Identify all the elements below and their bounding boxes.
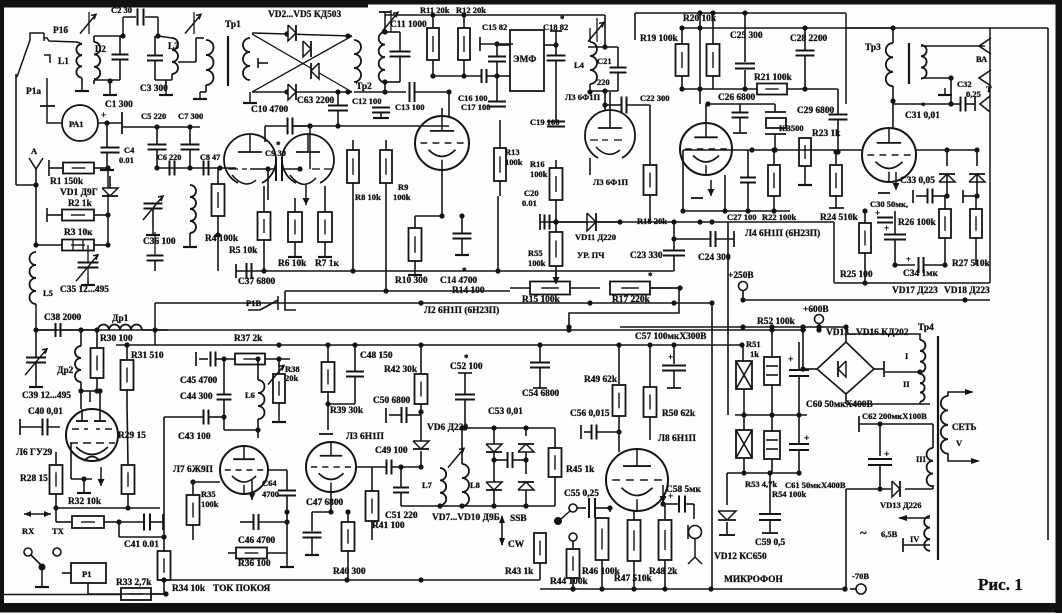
svg-text:L7: L7 xyxy=(422,480,433,490)
resistor R32 xyxy=(122,465,135,494)
wire C3-L3 bottom xyxy=(155,79,172,81)
arrow updown SSB xyxy=(501,516,503,545)
wire y415 xyxy=(735,414,807,416)
wire BA bottom xyxy=(921,77,951,79)
diode VD18 xyxy=(969,174,985,182)
wire III top xyxy=(870,444,933,448)
svg-text:R21 100k: R21 100k xyxy=(754,73,793,83)
ground C39 xyxy=(35,380,37,387)
svg-text:C31 0,01: C31 0,01 xyxy=(905,111,940,121)
svg-text:C46 4700: C46 4700 xyxy=(238,536,276,546)
diode VD10 xyxy=(518,482,534,490)
capacitor C56 xyxy=(591,425,593,440)
bus y271 xyxy=(236,270,674,272)
svg-text:Р1В: Р1В xyxy=(246,298,261,308)
switch RX contact xyxy=(24,548,32,556)
capacitor C4 xyxy=(101,147,120,149)
wire TX down xyxy=(56,556,58,560)
capacitor C33b bar xyxy=(962,190,964,203)
rail y13 xyxy=(635,12,846,14)
wire tube2 top xyxy=(441,108,443,116)
svg-text:Др2: Др2 xyxy=(57,366,74,376)
svg-text:R36 100: R36 100 xyxy=(238,559,271,569)
diode VD8 xyxy=(518,444,534,452)
diode VD5 xyxy=(288,84,296,100)
svg-text:VD13 Д226: VD13 Д226 xyxy=(880,500,922,510)
svg-text:R53 4,7k: R53 4,7k xyxy=(745,479,777,489)
svg-text:R6 10k: R6 10k xyxy=(278,259,307,269)
svg-text:R54 100k: R54 100k xyxy=(772,489,807,499)
ground C35 xyxy=(87,268,89,278)
svg-text:R3 10к: R3 10к xyxy=(64,228,93,238)
resistor R13 xyxy=(494,148,506,181)
svg-text:C15 82: C15 82 xyxy=(482,22,507,32)
resistor R27 xyxy=(970,209,982,238)
diode VD3 xyxy=(303,41,311,57)
svg-text:C22 300: C22 300 xyxy=(640,93,670,103)
svg-text:C40 0,01: C40 0,01 xyxy=(28,407,63,417)
relay P1b contact arm xyxy=(17,33,44,77)
tube left innards xyxy=(238,151,262,153)
svg-text:ТХ: ТХ xyxy=(52,526,65,536)
resistor R3 xyxy=(62,240,94,251)
ring bottom wire xyxy=(252,91,352,93)
arrow IV top xyxy=(899,517,930,519)
svg-text:Тр3: Тр3 xyxy=(865,43,881,53)
capacitor C39 variable xyxy=(26,357,46,359)
terminal bar right of PA1 xyxy=(121,112,123,134)
capacitor C9 xyxy=(275,157,277,181)
tube L3a innards xyxy=(598,127,622,129)
svg-text:R5 10k: R5 10k xyxy=(229,246,258,256)
resistor R28 xyxy=(50,465,63,494)
svg-text:C2 30: C2 30 xyxy=(111,5,132,15)
wire grid row y150 xyxy=(683,149,862,151)
svg-text:C58 5мк: C58 5мк xyxy=(666,485,702,495)
svg-text:-70В: -70В xyxy=(852,571,869,581)
capacitor C41 xyxy=(143,514,145,531)
box bottom xyxy=(833,222,835,283)
coil L8 xyxy=(462,464,469,478)
wire C44-L6 bottom xyxy=(224,429,258,431)
ring diag 2 xyxy=(252,36,352,92)
svg-text:R25 100: R25 100 xyxy=(840,270,873,280)
svg-text:C13 100: C13 100 xyxy=(395,102,425,112)
svg-text:C1 300: C1 300 xyxy=(105,100,133,110)
capacitor C2 xyxy=(137,9,139,26)
svg-text:C50 6800: C50 6800 xyxy=(373,396,411,406)
terminal -70V xyxy=(842,586,847,591)
svg-text:0.01: 0.01 xyxy=(522,198,537,208)
capacitor C25 xyxy=(735,63,755,65)
bar in ring xyxy=(257,58,259,68)
resistor R1 xyxy=(63,163,94,174)
wire right column xyxy=(107,168,109,245)
svg-text:R49 62k: R49 62k xyxy=(584,375,618,385)
relay P1a contact xyxy=(46,78,48,106)
wire x421 col xyxy=(420,467,422,506)
arrow set bottom xyxy=(948,453,978,461)
svg-text:220: 220 xyxy=(597,77,610,87)
resistor R47 xyxy=(628,520,641,561)
svg-text:*: * xyxy=(560,14,565,24)
ground C4 xyxy=(106,163,108,170)
speaker BA horn bottom xyxy=(979,70,991,86)
capacitor C1 xyxy=(112,54,129,56)
wire L4 bottom xyxy=(683,210,790,212)
wire C2 to L3 xyxy=(145,16,158,18)
capacitor C49 xyxy=(386,460,388,475)
svg-text:0.01: 0.01 xyxy=(119,155,134,165)
svg-text:R23 1k: R23 1k xyxy=(812,129,841,139)
wire L5 anode xyxy=(892,101,894,128)
capacitor C18 xyxy=(547,55,566,57)
wire R13 drop xyxy=(497,196,499,271)
resistor R55 xyxy=(550,232,563,266)
capacitor C34sh xyxy=(884,234,906,236)
svg-text:R40 300: R40 300 xyxy=(333,567,366,577)
svg-text:Л7 6Ж9П: Л7 6Ж9П xyxy=(173,465,214,475)
svg-text:C24 300: C24 300 xyxy=(698,253,731,263)
svg-text:100k: 100k xyxy=(528,258,546,268)
svg-text:R52 100k: R52 100k xyxy=(757,317,796,327)
resistor R9 xyxy=(380,150,392,183)
capacitor C55 xyxy=(588,498,590,518)
capacitor C5 xyxy=(148,144,167,146)
anode wires GU29 xyxy=(80,391,82,409)
wire BA top xyxy=(921,45,985,47)
resistor R33 xyxy=(121,588,151,600)
wire TX-P1 xyxy=(62,572,71,574)
antenna symbol xyxy=(29,158,43,169)
wire Tp2 top xyxy=(384,12,386,30)
svg-text:R50 62k: R50 62k xyxy=(662,409,696,419)
svg-text:R44 100k: R44 100k xyxy=(550,577,589,587)
wire Tp4 I top xyxy=(848,334,920,340)
trimmer Tp2 xyxy=(382,12,398,31)
svg-text:Тр2: Тр2 xyxy=(356,82,372,92)
arrow L5 xyxy=(895,172,897,190)
svg-text:Л2 6Н1П (6Н23П): Л2 6Н1П (6Н23П) xyxy=(424,305,499,316)
wire Dr2-R30 join xyxy=(81,390,97,392)
capacitor C50 xyxy=(401,407,403,423)
bus y327 xyxy=(620,326,846,328)
wire P1 bottom xyxy=(87,583,89,594)
bridge diode xyxy=(838,361,846,377)
tube L4 6N1P xyxy=(680,123,732,175)
wire C41 down xyxy=(118,522,120,537)
wire Tp4 II xyxy=(883,369,885,372)
resistor R22 xyxy=(768,165,780,196)
wire R39 to tube xyxy=(327,404,329,430)
capacitor C13 xyxy=(409,82,411,102)
resistor R19 xyxy=(676,44,689,76)
coil L4b xyxy=(590,42,597,56)
terminal +600V xyxy=(815,315,824,324)
svg-text:+250В: +250В xyxy=(728,271,754,281)
arrow L8 cath xyxy=(662,485,664,503)
svg-text:+: + xyxy=(668,352,673,362)
svg-text:РА1: РА1 xyxy=(69,119,84,129)
resistor R23 xyxy=(799,138,811,166)
ground Tp1 left xyxy=(199,92,201,99)
coil Tp4 IV xyxy=(924,516,930,528)
svg-text:Р1б: Р1б xyxy=(53,25,68,36)
svg-text:R13: R13 xyxy=(505,147,520,157)
wire R8 drop xyxy=(352,196,354,271)
capacitor C6 xyxy=(169,161,171,176)
svg-text:*: * xyxy=(276,140,281,150)
svg-text:C23 330: C23 330 xyxy=(630,251,663,261)
capacitor C63 xyxy=(328,105,348,107)
capacitor C64 xyxy=(278,490,296,492)
bus y300 right xyxy=(743,299,990,301)
capacitor C26 xyxy=(732,112,749,114)
capacitor C57 xyxy=(673,345,675,364)
wire cath col xyxy=(267,169,269,200)
bridge diamond xyxy=(817,342,874,394)
wire TX stub xyxy=(55,508,57,522)
svg-text:Т: Т xyxy=(986,84,992,94)
wire L2 bottom xyxy=(94,79,120,81)
wire L3 bottom drop xyxy=(330,492,332,512)
svg-text:C3 300: C3 300 xyxy=(140,84,168,94)
capacitor C35 variable xyxy=(78,262,99,264)
wire L3 to Tp1 xyxy=(178,61,196,63)
svg-text:C5 220: C5 220 xyxy=(141,111,166,121)
wire R11R12 bottom xyxy=(433,75,464,77)
svg-text:L6: L6 xyxy=(245,390,255,400)
capacitor C15 xyxy=(488,56,506,58)
capacitor C62 xyxy=(879,424,881,456)
wire L7 left lead xyxy=(193,481,220,483)
svg-text:*: * xyxy=(921,101,926,111)
resistor R46 xyxy=(596,518,609,560)
svg-text:V: V xyxy=(956,438,963,448)
ground under L1 xyxy=(81,84,83,91)
svg-text:SSB: SSB xyxy=(510,514,527,524)
capacitor C61 xyxy=(798,415,800,443)
svg-text:+: + xyxy=(884,450,889,460)
svg-text:R26 100k: R26 100k xyxy=(898,218,937,228)
capacitor C53 xyxy=(507,452,509,468)
svg-text:~: ~ xyxy=(860,525,867,540)
resistor R51 ballast xyxy=(736,361,752,389)
wire bridge bottom xyxy=(845,394,847,404)
block EMF xyxy=(510,30,544,91)
wire y265 xyxy=(865,264,976,266)
tube L3 6N1P xyxy=(306,442,356,492)
svg-text:C47 6800: C47 6800 xyxy=(306,498,344,508)
svg-text:100k: 100k xyxy=(393,192,411,202)
svg-text:II: II xyxy=(903,379,910,389)
capacitor C24 xyxy=(710,231,712,247)
coil L3 xyxy=(172,38,178,50)
svg-text:VD18 Д223: VD18 Д223 xyxy=(944,286,990,296)
cathode bar L5 xyxy=(878,192,890,194)
diode VD1 xyxy=(102,188,118,196)
capacitor C51 xyxy=(393,487,409,489)
speaker BA horn top xyxy=(979,38,991,54)
resistor R7 xyxy=(318,212,332,242)
ballast2 R54 xyxy=(764,431,780,459)
svg-text:+: + xyxy=(906,254,911,264)
svg-text:C30 50мк,: C30 50мк, xyxy=(870,199,908,209)
resistor R24 xyxy=(830,165,842,196)
resistor R4 xyxy=(212,184,225,216)
capacitor C34 xyxy=(918,257,920,273)
capacitor C19 top stub xyxy=(555,108,557,121)
svg-text:CW: CW xyxy=(508,540,525,550)
wire C36 top xyxy=(154,232,156,255)
svg-text:C25 300: C25 300 xyxy=(730,31,763,41)
svg-text:R22 100k: R22 100k xyxy=(762,212,797,222)
resistor R37 xyxy=(235,354,265,365)
capacitor C23 xyxy=(663,250,685,252)
svg-text:Л4 6Н1П (6Н23П): Л4 6Н1П (6Н23П) xyxy=(745,228,820,239)
tube L5 6F1P xyxy=(862,128,916,182)
capacitor C43 xyxy=(203,410,205,425)
svg-text:VD17 Д223: VD17 Д223 xyxy=(892,286,938,296)
svg-text:Тр1: Тр1 xyxy=(225,20,241,30)
frame outer xyxy=(0,0,1062,5)
svg-text:R24 510k: R24 510k xyxy=(820,213,859,223)
capacitor C46 xyxy=(253,514,255,530)
wire x728 xyxy=(727,222,729,415)
resistor R16 xyxy=(550,168,563,200)
capacitor C48 xyxy=(346,371,364,373)
wire L3 pent bottom xyxy=(589,158,591,175)
svg-text:L5: L5 xyxy=(43,288,53,298)
bus y345 xyxy=(116,344,742,346)
resistor R38 xyxy=(273,374,285,403)
svg-text:L3: L3 xyxy=(168,42,179,52)
diode VD13b xyxy=(892,481,900,497)
svg-text:100k: 100k xyxy=(505,157,523,167)
arrow L7 xyxy=(251,480,253,500)
coil Tp1 left xyxy=(206,40,214,55)
svg-text:C33 0,05: C33 0,05 xyxy=(900,176,935,186)
svg-text:C45 4700: C45 4700 xyxy=(180,376,218,386)
wire ring to Tp2 xyxy=(354,91,385,93)
coil L1 xyxy=(76,44,82,55)
svg-text:6,5В: 6,5В xyxy=(881,529,898,539)
capacitor C16 xyxy=(481,69,483,83)
svg-text:ЭМФ: ЭМФ xyxy=(513,55,536,65)
svg-text:R30 100: R30 100 xyxy=(100,334,133,344)
svg-text:C34 1мк: C34 1мк xyxy=(903,269,939,279)
svg-text:Р1а: Р1а xyxy=(26,87,41,97)
ground under L3 xyxy=(165,88,167,95)
capacitor C45 xyxy=(210,352,212,367)
switch C55 node xyxy=(569,504,577,512)
svg-text:R8 10k: R8 10k xyxy=(355,192,381,202)
wire tube2 bottom xyxy=(441,170,443,216)
svg-text:+: + xyxy=(884,223,889,233)
wire R41 top xyxy=(371,467,373,480)
coil L5 xyxy=(30,252,37,265)
contact bracket xyxy=(44,55,50,63)
resistor R49 xyxy=(613,385,626,416)
svg-text:Рис. 1: Рис. 1 xyxy=(978,575,1023,594)
tube right half xyxy=(282,134,334,160)
wire emf left mid xyxy=(497,75,510,77)
svg-text:20k: 20k xyxy=(285,373,299,383)
svg-text:L4: L4 xyxy=(574,60,585,70)
ring left coil xyxy=(243,38,250,52)
resistor R48 xyxy=(659,520,672,560)
transformer Tp1 core xyxy=(227,36,229,86)
transformer Tp3 core xyxy=(908,43,910,84)
wire PA1 left xyxy=(47,106,62,123)
capacitor C30 xyxy=(877,217,893,219)
svg-text:R18 20k: R18 20k xyxy=(637,216,667,226)
svg-text:C43 100: C43 100 xyxy=(178,432,211,442)
resistor R25 xyxy=(859,223,871,253)
svg-text:R31 510: R31 510 xyxy=(131,351,164,361)
microphone figure xyxy=(689,526,702,539)
svg-text:C19 100: C19 100 xyxy=(530,117,560,127)
diode VD6 xyxy=(413,441,429,449)
svg-text:RX: RX xyxy=(22,526,35,536)
tube L2 (442,143) xyxy=(415,116,469,170)
wire y424 xyxy=(859,423,930,425)
capacitor C52 xyxy=(455,394,475,396)
wire R37 right xyxy=(265,358,290,360)
ballast2 R53 xyxy=(736,430,752,458)
resistor R18 xyxy=(644,165,657,195)
ground C32 node xyxy=(944,88,946,95)
svg-text:R16: R16 xyxy=(530,159,545,169)
trimmer L7L8 xyxy=(448,448,464,467)
wire R4 bottom xyxy=(190,221,218,235)
resistor R42 xyxy=(415,374,428,404)
resistor R26 xyxy=(939,209,951,238)
svg-text:C60 50мкХ400В: C60 50мкХ400В xyxy=(806,400,873,410)
wire C64 col xyxy=(286,512,288,553)
svg-text:R1 150k: R1 150k xyxy=(50,177,84,187)
resistor R35 xyxy=(187,495,200,525)
svg-text:C11 1000: C11 1000 xyxy=(390,20,427,30)
capacitor C29 xyxy=(829,114,848,116)
resistor R41 xyxy=(366,491,379,521)
svg-text:C56 0,015: C56 0,015 xyxy=(570,409,610,419)
svg-text:+: + xyxy=(804,434,809,444)
svg-text:C49 100: C49 100 xyxy=(375,446,408,456)
capacitor C44 xyxy=(217,394,232,396)
svg-text:C14 4700: C14 4700 xyxy=(440,276,478,286)
wire grid row right xyxy=(916,149,977,151)
capacitor C11 xyxy=(390,51,411,53)
svg-text:Л3 6Н1П: Л3 6Н1П xyxy=(346,432,385,442)
svg-text:+: + xyxy=(875,208,880,218)
resistor R6 xyxy=(288,212,302,242)
relay P1 box xyxy=(71,563,106,583)
wire P1 left xyxy=(56,556,58,563)
resistor R8 xyxy=(347,150,359,183)
coil Tp4 III xyxy=(927,448,933,461)
svg-text:C36 100: C36 100 xyxy=(143,237,176,247)
capacitor C8 xyxy=(203,161,205,176)
svg-text:R35: R35 xyxy=(201,489,216,499)
rail y28 xyxy=(682,27,893,29)
resistor R17 xyxy=(610,282,650,295)
wire y473 xyxy=(727,472,799,474)
svg-text:C29 6800: C29 6800 xyxy=(797,106,835,116)
svg-text:C6 220: C6 220 xyxy=(157,153,181,162)
coil L2 xyxy=(94,42,100,54)
wire bridge top xyxy=(845,327,847,342)
